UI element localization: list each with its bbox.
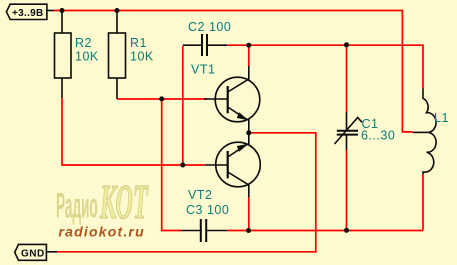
svg-text:radiokot.ru: radiokot.ru bbox=[59, 224, 145, 240]
svg-text:10K: 10K bbox=[75, 50, 99, 64]
svg-text:+3..9В: +3..9В bbox=[12, 8, 44, 19]
svg-text:Радио: Радио bbox=[56, 186, 98, 226]
svg-text:КОТ: КОТ bbox=[99, 176, 148, 229]
svg-text:6...30: 6...30 bbox=[361, 128, 395, 142]
svg-text:GND: GND bbox=[21, 249, 45, 260]
svg-text:VT2: VT2 bbox=[188, 188, 212, 202]
svg-text:10K: 10K bbox=[130, 50, 154, 64]
svg-text:VT1: VT1 bbox=[191, 62, 215, 76]
svg-text:C3 100: C3 100 bbox=[186, 203, 229, 217]
svg-text:C2 100: C2 100 bbox=[188, 20, 231, 34]
svg-text:R2: R2 bbox=[75, 36, 92, 50]
svg-text:L1: L1 bbox=[434, 111, 449, 125]
svg-text:R1: R1 bbox=[130, 36, 147, 50]
